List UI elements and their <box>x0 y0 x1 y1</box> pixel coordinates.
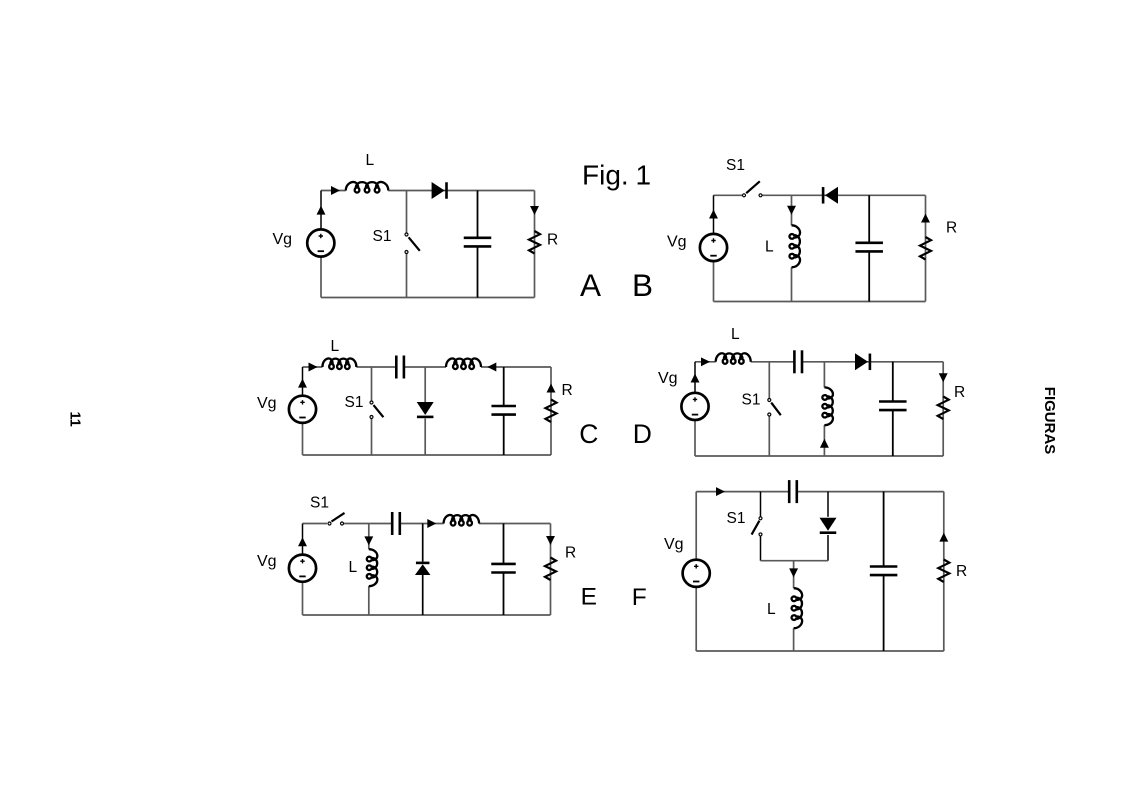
wire: circuit B right rail (load branch) <box>925 195 927 301</box>
label S1 (F) <box>727 510 746 527</box>
series capacitor (F) <box>789 480 797 503</box>
label letter F <box>632 584 647 611</box>
current arrow up (D left rail) <box>691 374 700 383</box>
svg-text:Vg: Vg <box>257 553 277 570</box>
current arrow up (C load) <box>547 384 556 393</box>
inductor L2 (E) <box>444 515 480 526</box>
svg-text:L: L <box>366 152 375 169</box>
label Vg (C) <box>257 395 277 412</box>
wire: circuit C top rail <box>303 366 552 368</box>
svg-text:R: R <box>562 382 573 399</box>
label R (D) <box>954 384 965 401</box>
resistor R (A) <box>529 231 540 254</box>
current arrow down (E inductor) <box>364 536 373 545</box>
wire: circuit C bottom rail <box>303 454 552 456</box>
label Vg (A) <box>273 231 293 248</box>
diode (E) <box>415 562 431 575</box>
wire: circuit E left rail (source branch) <box>302 524 304 616</box>
svg-text:L: L <box>331 338 340 355</box>
svg-text:FIGURAS: FIGURAS <box>1041 387 1058 455</box>
current arrow down (B inductor) <box>787 206 796 215</box>
switch S1 (A) <box>405 233 420 254</box>
inductor L2 (D) <box>822 387 833 425</box>
svg-text:L: L <box>731 326 740 343</box>
wire: switch branch (C) <box>371 367 373 455</box>
resistor R (B) <box>920 237 931 260</box>
svg-text:R: R <box>565 545 576 562</box>
current arrow up (D inductor branch) <box>820 439 829 448</box>
label R (F) <box>956 563 967 580</box>
current arrow right (F top rail) <box>716 487 725 496</box>
current arrow down (F inductor) <box>789 568 798 577</box>
label S1 (C) <box>345 394 364 411</box>
svg-text:A: A <box>580 267 601 303</box>
label R (A) <box>547 232 558 249</box>
wire: circuit D bottom rail <box>695 455 943 457</box>
label L (E) <box>349 559 358 576</box>
diode (C) <box>417 402 434 418</box>
label R (C) <box>562 382 573 399</box>
wire: circuit D left rail (source branch) <box>694 362 696 456</box>
wire: inner horizontal bar (F) <box>761 560 829 562</box>
page number 11 (rotated) <box>67 412 83 427</box>
voltage source Vg (B) <box>700 234 727 261</box>
svg-text:S1: S1 <box>742 392 761 409</box>
current arrow right (D top rail) <box>701 357 710 366</box>
current arrow up (C left rail) <box>298 379 307 388</box>
label Vg (E) <box>257 553 277 570</box>
inductor L1 (D) <box>716 353 751 364</box>
wire: circuit C left rail (source branch) <box>302 367 304 455</box>
switch S1 (B) <box>743 181 763 197</box>
wire: circuit F top rail <box>696 491 944 493</box>
inductor L (A) <box>346 182 389 193</box>
wire: diode branch (F) <box>827 492 829 561</box>
output capacitor (E) <box>491 524 516 616</box>
wire: inductor branch (F) <box>793 561 795 651</box>
inductor L (F) <box>792 588 803 628</box>
svg-text:R: R <box>547 232 558 249</box>
side text FIGURAS (rotated) <box>1041 387 1058 455</box>
wire: circuit B left rail (source branch) <box>713 195 715 301</box>
label letter E <box>581 583 597 610</box>
svg-text:R: R <box>956 563 967 580</box>
voltage source Vg (E) <box>289 555 316 582</box>
current arrow up (A left rail) <box>317 206 326 215</box>
svg-text:Vg: Vg <box>667 234 687 251</box>
resistor R (E) <box>545 558 556 581</box>
resistor R (C) <box>546 400 557 423</box>
wire: inductor branch (E) <box>368 524 370 616</box>
current arrow down (A load) <box>530 206 539 215</box>
wire: switch branch (F) <box>760 492 762 561</box>
label S1 (A) <box>373 228 392 245</box>
label letter A <box>580 267 601 303</box>
svg-text:R: R <box>946 220 957 237</box>
svg-text:D: D <box>633 419 652 449</box>
wire: circuit F left rail (source branch) <box>695 492 697 651</box>
diode (F) <box>820 518 837 534</box>
series capacitor (D) <box>794 350 802 373</box>
label S1 (B) <box>726 157 745 174</box>
switch S1 (D) <box>768 399 781 417</box>
title Fig. 1 <box>582 160 651 191</box>
switch S1 (F) <box>752 517 762 536</box>
svg-text:L: L <box>765 239 774 256</box>
current arrow down (E load) <box>546 536 555 545</box>
svg-text:L: L <box>767 601 776 618</box>
label Vg (F) <box>664 536 684 553</box>
wire: circuit B top rail <box>714 194 926 196</box>
svg-text:C: C <box>579 419 598 449</box>
current arrow up (B left rail) <box>709 210 718 219</box>
label letter D <box>633 419 652 449</box>
voltage source Vg (C) <box>289 396 316 423</box>
resistor R (D) <box>938 397 949 420</box>
label L (F) <box>767 601 776 618</box>
output capacitor (C) <box>491 367 516 455</box>
output capacitor (D) <box>879 362 907 456</box>
svg-text:Vg: Vg <box>273 231 293 248</box>
svg-text:S1: S1 <box>310 495 329 512</box>
current arrow down (D load) <box>939 373 948 382</box>
svg-text:Vg: Vg <box>658 370 678 387</box>
wire: inductor branch (B) <box>791 195 793 301</box>
wire: circuit A right rail (load branch) <box>534 191 536 298</box>
label R (E) <box>565 545 576 562</box>
label L (B) <box>765 239 774 256</box>
inductor L (E) <box>367 549 378 586</box>
label Vg (B) <box>667 234 687 251</box>
svg-text:1: 1 <box>636 160 652 191</box>
diode (D) <box>855 353 871 370</box>
wire: circuit A top rail <box>321 190 535 192</box>
wire: diode branch (E) <box>422 524 424 616</box>
current arrow right (C top rail) <box>309 363 318 372</box>
svg-text:B: B <box>632 267 653 303</box>
svg-text:11: 11 <box>67 412 83 427</box>
current arrow up (F load) <box>939 533 948 542</box>
svg-text:Vg: Vg <box>257 395 277 412</box>
capacitor (B) <box>855 195 883 301</box>
svg-text:S1: S1 <box>345 394 364 411</box>
current arrow up (B load) <box>921 214 930 223</box>
series capacitor (C) <box>396 356 404 379</box>
svg-text:S1: S1 <box>373 228 392 245</box>
wire: switch branch (A) <box>406 191 408 298</box>
svg-text:E: E <box>581 583 597 610</box>
wire: circuit E top rail <box>303 523 551 525</box>
wire: circuit D right rail (load branch) <box>942 362 944 456</box>
current arrow up (E left rail) <box>298 537 307 546</box>
current arrow right (E top rail) <box>427 519 436 528</box>
wire: circuit D top rail <box>695 361 943 363</box>
wire: circuit C right rail (load branch) <box>550 367 552 455</box>
inductor L (B) <box>789 225 800 267</box>
wire: circuit E right rail (load branch) <box>550 524 552 616</box>
wire: inductor branch (D) <box>823 362 825 456</box>
svg-text:Vg: Vg <box>664 536 684 553</box>
label Vg (D) <box>658 370 678 387</box>
voltage source Vg (D) <box>681 393 708 420</box>
label S1 (D) <box>742 392 761 409</box>
label letter C <box>579 419 598 449</box>
capacitor (A) <box>464 191 492 298</box>
voltage source Vg (F) <box>683 560 710 587</box>
switch S1 (E) <box>328 513 345 525</box>
label L (A) <box>366 152 375 169</box>
svg-text:S1: S1 <box>726 157 745 174</box>
wire: circuit A bottom rail <box>321 297 535 299</box>
label L (C) <box>331 338 340 355</box>
wire: diode branch (C) <box>424 367 426 455</box>
current arrow right (A top rail) <box>331 186 340 195</box>
series capacitor (E) <box>392 512 400 535</box>
svg-text:L: L <box>349 559 358 576</box>
wire: circuit B bottom rail <box>714 301 926 303</box>
svg-text:R: R <box>954 384 965 401</box>
wire: circuit E bottom rail <box>303 614 551 616</box>
svg-text:Fig.: Fig. <box>582 160 629 191</box>
diode (A) <box>432 182 448 199</box>
switch S1 (C) <box>370 401 383 419</box>
svg-text:S1: S1 <box>727 510 746 527</box>
label letter B <box>632 267 653 303</box>
resistor R (F) <box>938 560 949 583</box>
label R (B) <box>946 220 957 237</box>
svg-text:F: F <box>632 584 647 611</box>
voltage source Vg (A) <box>307 229 334 256</box>
diode (B) <box>822 187 838 204</box>
wire: circuit F bottom rail <box>696 650 944 652</box>
inductor L1 (C) <box>322 358 356 369</box>
wire: circuit F right rail (load branch) <box>943 492 945 651</box>
wire: switch branch (D) <box>768 362 770 456</box>
output capacitor (F) <box>870 492 898 651</box>
wire: circuit A left rail (source branch) <box>320 191 322 298</box>
label L (D) <box>731 326 740 343</box>
label S1 (E) <box>310 495 329 512</box>
current arrow left (C top rail) <box>487 363 496 372</box>
inductor L2 (C) <box>446 358 481 369</box>
